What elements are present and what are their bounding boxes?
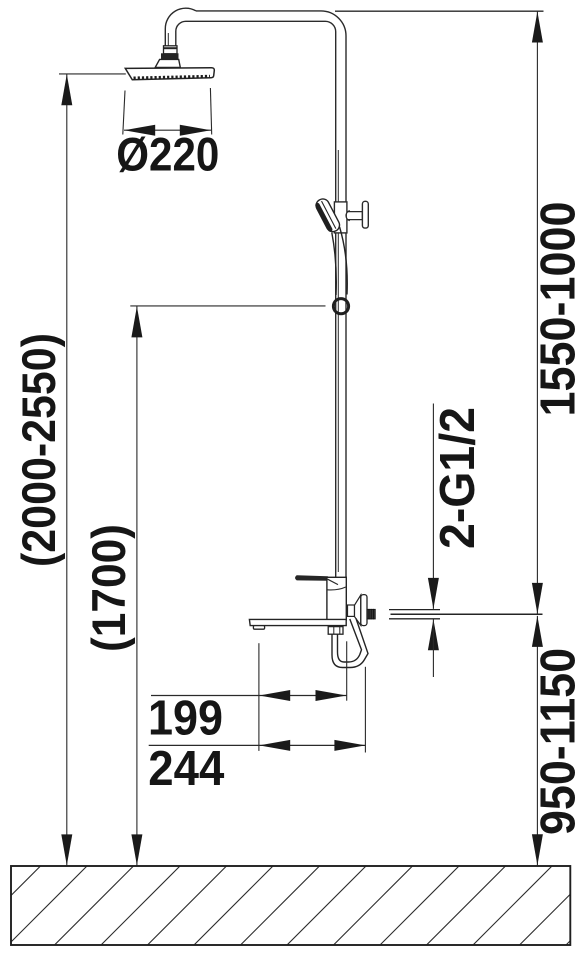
- arrow up (2000-2550): [61, 74, 72, 105]
- dimension line (2000-2550): [66, 74, 68, 865]
- extension line at riser top level: [335, 10, 544, 12]
- wall connector: [348, 605, 355, 616]
- dimension line 950-1150: [536, 616, 538, 865]
- shower head dark neck band: [162, 54, 179, 60]
- faucet cap curve: [327, 587, 345, 590]
- extension line shower head left edge: [123, 91, 125, 135]
- slide bar holder ring: [333, 299, 348, 314]
- escutcheon face plate: [361, 595, 367, 626]
- hand shower head (tilted oval): [314, 197, 342, 234]
- arrow down 1550-1000: [532, 583, 543, 614]
- G1/2 outlet upper line: [389, 609, 440, 611]
- arrow down (1700): [131, 834, 142, 865]
- dimension line 2-G1/2 lower part: [432, 619, 434, 677]
- svg-text:1550-1000: 1550-1000: [532, 202, 586, 417]
- svg-text:(1700): (1700): [82, 524, 135, 652]
- extension line shower head right edge: [210, 88, 211, 135]
- escutcheon cone: [355, 595, 361, 625]
- arrow right 199: [316, 690, 347, 701]
- faucet lever underside line: [328, 579, 338, 584]
- arrow left 199: [259, 690, 290, 701]
- outlet centre extension line: [391, 613, 543, 615]
- extension line at hand shower holder level: [130, 305, 325, 307]
- arrow down 2-G1/2: [428, 578, 439, 609]
- shower head spray nozzle dotted face: [134, 76, 211, 78]
- shower arm leg inner line: [167, 33, 169, 46]
- shower head cone joint: [155, 59, 180, 67]
- hose nut below faucet: [328, 626, 343, 634]
- svg-text:Ø220: Ø220: [116, 128, 219, 181]
- arrow up 950-1150: [532, 616, 543, 647]
- hand shower knob bar: [362, 201, 368, 228]
- shower hose loop: [332, 619, 368, 668]
- arrow up (1700): [131, 306, 142, 337]
- dimension line 1550-1000: [536, 12, 538, 614]
- extension line hose outer: [364, 667, 366, 753]
- hand shower handle: [332, 227, 347, 295]
- arrow left 244: [259, 740, 290, 751]
- faucet body: [327, 577, 346, 620]
- shower arm left bend down-leg: [165, 8, 196, 46]
- shower head collar nut: [164, 46, 178, 54]
- dimension line diameter 220: [124, 129, 211, 131]
- spout aerator: [253, 626, 264, 630]
- arrow left d220: [124, 125, 155, 136]
- G1/2 outlet lower line: [389, 618, 440, 620]
- arrow up 1550-1000: [532, 12, 543, 43]
- dimension line 2-G1/2 upper part: [432, 404, 434, 609]
- svg-text:199: 199: [148, 692, 223, 746]
- svg-text:244: 244: [148, 742, 224, 796]
- arrow down 950-1150: [532, 834, 543, 865]
- svg-text:950-1150: 950-1150: [532, 648, 586, 835]
- hand shower slider block: [334, 202, 347, 233]
- shower arm pipe (riser top bend): [186, 11, 346, 578]
- ground hatched bar: [0, 866, 588, 945]
- arrow right 244: [334, 740, 365, 751]
- overhead shower head disc: [125, 68, 214, 80]
- svg-text:2-G1/2: 2-G1/2: [431, 407, 485, 549]
- riser highlight line: [337, 150, 339, 572]
- dimension line 244: [149, 744, 366, 746]
- extension line riser centre: [346, 641, 348, 700]
- dimension line (1700): [136, 306, 138, 865]
- arrow down (2000-2550): [61, 834, 72, 865]
- extension line spout tip: [258, 643, 260, 751]
- dimension line 199: [151, 695, 347, 697]
- tub spout: [249, 619, 346, 625]
- faucet lever handle: [296, 576, 328, 580]
- svg-text:(2000-2550): (2000-2550): [12, 333, 65, 567]
- extension line at shower head level: [59, 73, 126, 75]
- threaded nipple G1/2: [367, 609, 375, 619]
- hand shower knob stem: [346, 211, 362, 221]
- arrow right d220: [180, 125, 211, 136]
- arrow up 2-G1/2 lower: [428, 619, 439, 650]
